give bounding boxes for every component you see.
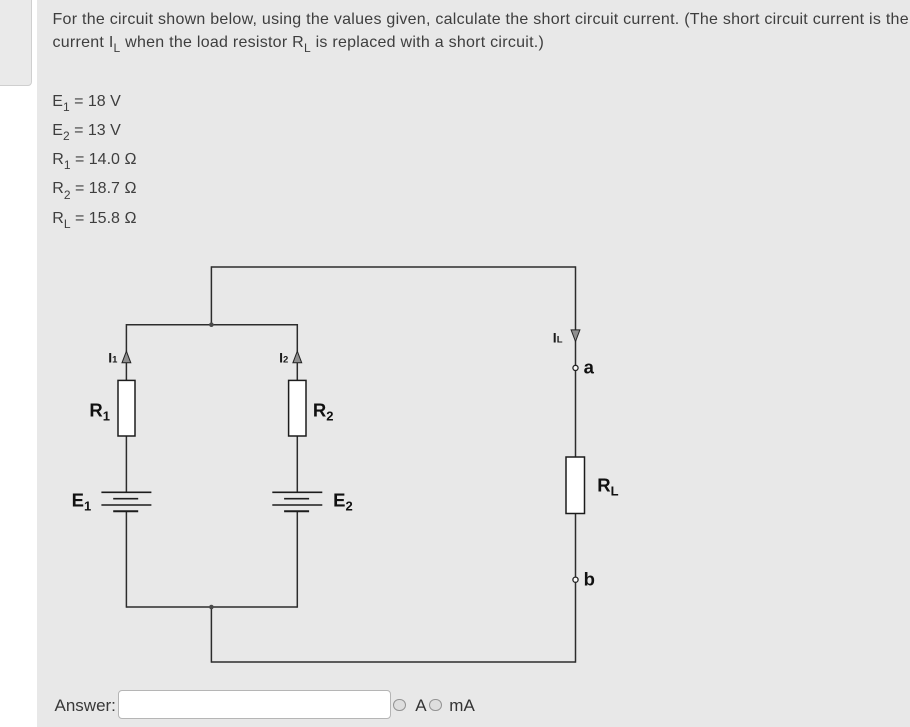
battery E1 bbox=[101, 492, 151, 511]
node a terminal bbox=[573, 365, 578, 370]
label IL bbox=[553, 330, 563, 346]
label node b bbox=[584, 569, 595, 590]
label R1 bbox=[89, 400, 110, 424]
label RL bbox=[597, 475, 618, 499]
label R2 bbox=[313, 400, 334, 424]
svg-text:E2: E2 bbox=[333, 490, 353, 514]
junction node top bbox=[209, 322, 214, 327]
resistor R2 bbox=[289, 380, 306, 436]
label E2 bbox=[333, 490, 353, 514]
resistor RL bbox=[566, 457, 585, 514]
wire bottom horizontal bbox=[211, 661, 575, 663]
label E1 bbox=[72, 490, 92, 514]
wire left bottom stub vertical bbox=[210, 607, 212, 663]
wire right vertical (node b to bottom) bbox=[575, 583, 577, 663]
label I2 bbox=[279, 350, 288, 366]
svg-text:E1: E1 bbox=[72, 490, 92, 514]
wire branch2 vertical lower bbox=[296, 511, 298, 608]
svg-text:b: b bbox=[584, 569, 595, 590]
svg-text:RL: RL bbox=[597, 475, 618, 499]
svg-text:I2: I2 bbox=[279, 350, 288, 366]
current arrow I1 bbox=[122, 351, 131, 363]
junction node bottom bbox=[209, 605, 214, 610]
wire branch1 vertical upper bbox=[125, 324, 127, 492]
wire branch2 vertical upper bbox=[296, 324, 298, 492]
resistor R1 bbox=[118, 380, 135, 436]
svg-text:IL: IL bbox=[553, 330, 563, 346]
wire left top stub vertical bbox=[210, 266, 212, 324]
current arrow I2 bbox=[293, 351, 302, 363]
wire inner top horizontal bbox=[126, 324, 297, 326]
wire right vertical (top section to node a) bbox=[575, 266, 577, 365]
wire branch1 vertical lower bbox=[125, 511, 127, 608]
battery E2 bbox=[272, 492, 322, 511]
wire right vertical (RL to node b) bbox=[575, 513, 577, 577]
svg-text:a: a bbox=[584, 357, 595, 378]
label node a bbox=[584, 357, 595, 378]
wire right vertical (node a to RL) bbox=[575, 371, 577, 458]
node b terminal bbox=[573, 577, 578, 582]
wire top horizontal bbox=[211, 266, 575, 268]
svg-text:R2: R2 bbox=[313, 400, 334, 424]
svg-text:R1: R1 bbox=[89, 400, 110, 424]
label I1 bbox=[108, 350, 118, 366]
current arrow IL bbox=[571, 330, 580, 342]
svg-text:I1: I1 bbox=[108, 350, 118, 366]
wire inner bottom horizontal bbox=[126, 606, 297, 608]
